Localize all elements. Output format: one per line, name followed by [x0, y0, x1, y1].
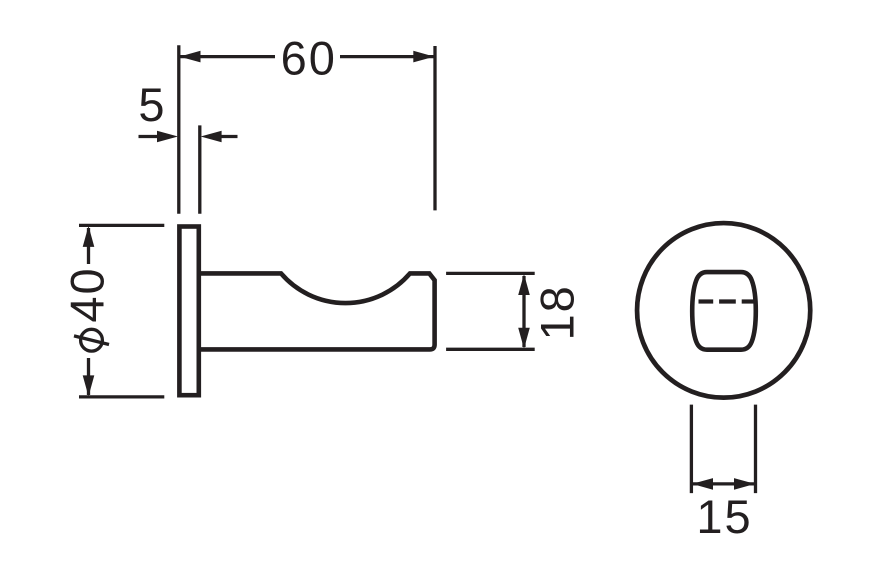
svg-text:15: 15: [696, 490, 752, 543]
svg-text:60: 60: [281, 32, 337, 85]
arrowhead dim phi40 down: [83, 375, 95, 396]
svg-text:18: 18: [530, 284, 583, 340]
label phi40 (rotated): [60, 266, 113, 351]
dim 5 right arrow tail: [220, 135, 238, 138]
dimension line 60 (left segment): [180, 55, 275, 58]
extension line right of dim 15: [754, 405, 757, 494]
arrowhead dim 15 left: [692, 478, 713, 490]
hidden line dash 1: [699, 299, 714, 303]
dimension line phi40 (upper segment): [87, 228, 90, 264]
extension line top of dim 18: [446, 272, 535, 275]
svg-text:5: 5: [138, 78, 164, 131]
extension line for dim 5: [198, 125, 201, 213]
hook arm outline (side view): [201, 273, 435, 349]
svg-text:40: 40: [60, 266, 113, 322]
dimension line phi40 (lower segment): [87, 358, 90, 395]
hidden line dash 2: [719, 299, 736, 303]
arrowhead dim 15 right: [734, 478, 755, 490]
dimension line 18: [522, 276, 525, 347]
arrowhead dim 60 right: [413, 51, 434, 63]
diameter symbol circle: [81, 329, 103, 351]
hidden line dash 3: [742, 299, 758, 303]
extension line left of dim 60: [177, 45, 180, 213]
extension line left of dim 15: [690, 405, 693, 494]
arrowhead dim 5 right (points left): [201, 131, 222, 143]
extension line bottom of dim 18: [446, 348, 535, 351]
arrowhead dim 18 up: [518, 274, 530, 295]
extension line right of dim 60: [433, 46, 436, 210]
base plate (side view): [179, 227, 198, 396]
label 18 (rotated): [530, 284, 583, 340]
extension line bottom of dim phi40: [79, 395, 164, 398]
arrowhead dim 18 down: [518, 328, 530, 349]
dim 5 left arrow tail: [139, 135, 160, 138]
arrowhead dim 5 left (points right): [157, 131, 178, 143]
arrowhead dim 60 left: [180, 51, 201, 63]
dimension line 60 (right segment): [340, 55, 434, 58]
arrowhead dim phi40 up: [83, 226, 95, 247]
extension line top of dim phi40: [79, 224, 164, 227]
hook body barrel outline (front view): [692, 272, 756, 350]
mounting flange circle (front view): [637, 223, 810, 398]
diameter symbol slash: [74, 336, 109, 345]
dimension line 15: [693, 482, 754, 485]
